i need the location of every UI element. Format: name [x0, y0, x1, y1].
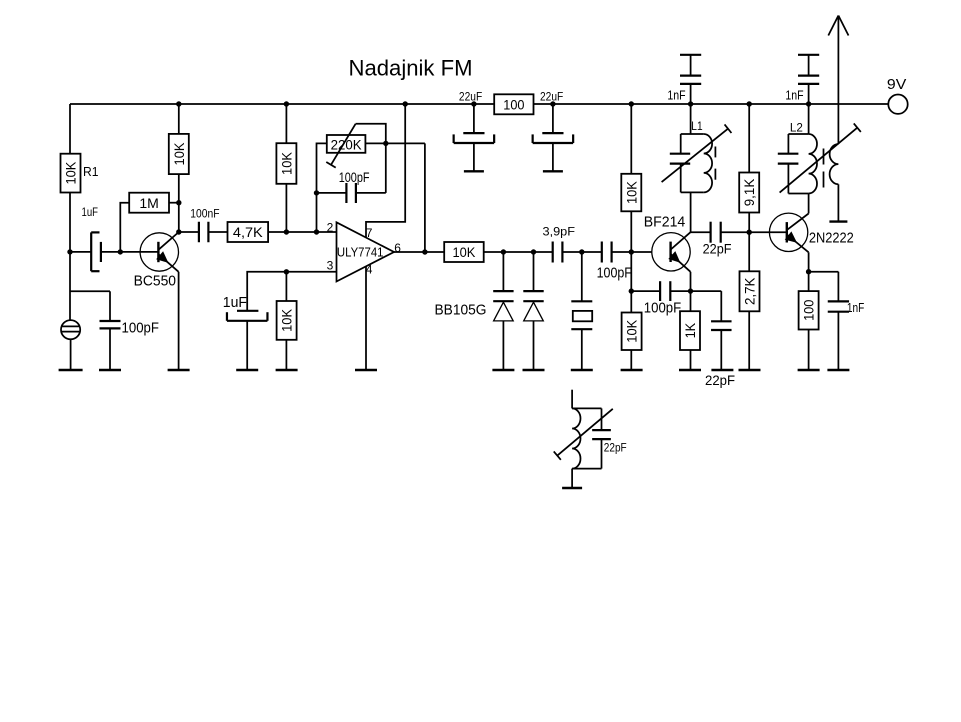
ground R13 [679, 369, 701, 371]
label C9 3,9pF [543, 225, 576, 239]
svg-text:1K: 1K [682, 322, 698, 338]
resistor R11 10K [277, 301, 297, 340]
node rail junction C [403, 101, 408, 106]
resistor R8 10K output [444, 242, 484, 262]
svg-text:22uF: 22uF [540, 89, 563, 103]
wire secondary to ground [837, 184, 839, 221]
wire 1M left lead [120, 203, 129, 252]
ground op-amp pin4 [355, 369, 377, 371]
resistor R10 9,1K [739, 173, 759, 213]
node rail junction D [471, 101, 476, 106]
wire mic branch horizontal [70, 290, 110, 292]
node pin3 junction dot [284, 269, 289, 274]
wire trimmer wiper [356, 124, 386, 144]
microphone MK1 [61, 320, 80, 339]
wire mic to ground [70, 339, 72, 370]
ground D1 [492, 369, 514, 371]
resistor R12 10K [622, 291, 642, 370]
svg-text:10K: 10K [624, 319, 640, 342]
crystal X1 [571, 252, 592, 370]
svg-text:R1: R1 [83, 164, 99, 179]
node rail junction H [747, 101, 752, 106]
svg-text:100: 100 [801, 300, 817, 321]
label C10 100pF [597, 265, 632, 282]
svg-text:22pF: 22pF [703, 241, 732, 257]
label Q1 BC550 [134, 272, 176, 289]
label C11 100pF [644, 300, 681, 317]
diode D1 BB105G varicap [493, 252, 513, 370]
wire R10 to base line [748, 213, 750, 233]
pin 6 label [394, 241, 401, 255]
node rail junction I [806, 101, 811, 106]
ground X1 [571, 369, 593, 371]
label C14 1nF [667, 87, 685, 102]
node collector junction dot [176, 229, 181, 234]
capacitor C12 22pF coupling [711, 222, 721, 243]
svg-text:100nF: 100nF [190, 206, 219, 220]
capacitor C15 1nF rail [798, 55, 819, 104]
label C6 1uF [223, 294, 247, 311]
wire branch down to C3 [109, 291, 111, 321]
wire 1M right lead [169, 202, 179, 204]
label C4 100nF [190, 206, 219, 220]
svg-text:9V: 9V [887, 76, 906, 93]
node output junction dot [422, 249, 427, 254]
label C15 1nF [785, 87, 803, 102]
title text [349, 56, 473, 81]
ground Q1 emitter [168, 369, 190, 371]
label 22uF second [540, 89, 563, 103]
node emitter junction dot [806, 269, 811, 274]
wire rail to L1 [690, 104, 692, 134]
pin 7 label [366, 226, 373, 240]
wire pin3 corner to 1uF [247, 272, 286, 311]
svg-text:100: 100 [503, 97, 524, 113]
capacitor C9 3,9pF [553, 242, 563, 263]
inductor L3 variable [554, 390, 613, 488]
wire C12 to 2N2222 base [721, 231, 787, 233]
wire R2 to collector node [178, 174, 180, 232]
svg-text:100pF: 100pF [339, 169, 370, 185]
capacitor C10 100pF series [602, 242, 612, 263]
svg-text:BF214: BF214 [644, 213, 686, 230]
svg-text:1nF: 1nF [847, 300, 864, 315]
wire 220K right leg [365, 142, 425, 144]
wire input node down to mic [69, 252, 71, 320]
resistor R14 2,7K [740, 271, 760, 311]
wire C3 to ground [109, 328, 111, 370]
svg-text:10K: 10K [171, 142, 187, 165]
node rail junction E [550, 101, 555, 106]
resistor R3 10K [276, 143, 296, 184]
wire pin4 to ground [365, 266, 367, 370]
svg-text:2N2222: 2N2222 [809, 229, 854, 246]
label Q3 2N2222 [809, 229, 854, 246]
ground R11 [276, 369, 298, 371]
svg-text:1uF: 1uF [82, 205, 99, 219]
resistor R13 1K [680, 291, 700, 370]
terminal 9V [888, 95, 907, 114]
node input junction dot [67, 249, 72, 254]
label L1 [691, 119, 703, 133]
node 9,1K junction dot [747, 230, 752, 235]
ground C3 [99, 369, 121, 371]
node varicap2 dot [531, 249, 536, 254]
capacitor C5 100pF feedback [317, 183, 386, 203]
label C3 100pF [122, 320, 160, 337]
node varicap1 dot [501, 249, 506, 254]
svg-text:10K: 10K [63, 161, 79, 184]
wire pin3 input [286, 271, 336, 273]
wire 220K left leg [317, 143, 327, 232]
svg-text:100pF: 100pF [644, 300, 681, 317]
node rail junction A [176, 101, 181, 106]
label C12 22pF [703, 241, 732, 257]
wire op-amp output [394, 251, 444, 253]
node rail junction F [629, 101, 634, 106]
wire main line seg1 [484, 251, 553, 253]
resistor R7 100 rail [494, 94, 533, 114]
node BF214 emitter dot [688, 288, 693, 293]
wire R9 to main line [630, 211, 632, 252]
resistor R4 1M [129, 193, 169, 213]
svg-text:L1: L1 [691, 119, 703, 133]
wire top supply rail right segment [534, 103, 889, 105]
label Q2 BF214 [644, 213, 686, 230]
capacitor C4 100nF [179, 222, 228, 243]
trimmer arrow R6 [326, 124, 355, 168]
svg-text:22pF: 22pF [705, 372, 735, 388]
node feedback junction dot [314, 229, 319, 234]
svg-text:BB105G: BB105G [435, 302, 487, 319]
node base junction dot [118, 249, 123, 254]
transistor Q2 BF214 [652, 232, 691, 291]
ground L2 secondary [829, 220, 847, 222]
svg-text:3,9pF: 3,9pF [543, 225, 576, 239]
svg-text:10K: 10K [279, 308, 295, 331]
wire L1 bottom to collector node [690, 192, 692, 232]
ground mic [59, 369, 83, 371]
wire 4,7K to opamp [268, 231, 336, 233]
node BF214 fb left dot [629, 288, 634, 293]
wire rail to R2 [178, 104, 180, 134]
capacitor C6 1uF non-inv [227, 311, 268, 321]
wire base line to R14 [748, 232, 750, 271]
wire R1 to input node [69, 193, 71, 252]
inductor L2 secondary [830, 144, 839, 184]
wire main line seg3 [612, 251, 652, 253]
wire top supply rail left segment [70, 103, 494, 105]
svg-text:L2: L2 [790, 121, 803, 135]
wire emitter to C13 [691, 290, 722, 292]
antenna [828, 16, 848, 145]
svg-text:4,7K: 4,7K [233, 224, 263, 240]
capacitor C1 1uF input coupling [70, 232, 120, 271]
node R3 junction dot [284, 229, 289, 234]
resistor R9 10K [621, 174, 641, 212]
wire rail to R9 [630, 104, 632, 174]
svg-text:22uF: 22uF [459, 89, 482, 103]
wire emitter to C16 [809, 271, 839, 273]
label L2 [790, 121, 803, 135]
resistor R1 10K [61, 154, 81, 193]
svg-text:10K: 10K [278, 151, 294, 174]
transistor Q1 BC550 [140, 232, 179, 370]
inductor L2 transformer primary [778, 123, 861, 193]
ground R15 [798, 369, 820, 371]
wire feedback to output [424, 143, 426, 252]
label 9V [887, 76, 906, 93]
wire collector node to C12 [691, 231, 711, 233]
wire base wire [120, 251, 157, 253]
ground C6 [236, 369, 258, 371]
resistor R2 10K [169, 134, 189, 174]
svg-text:ULY7741: ULY7741 [337, 244, 384, 259]
svg-text:6: 6 [394, 241, 401, 255]
label R1 [83, 164, 99, 179]
wire left rail drop to R1 [69, 104, 71, 154]
node 1M junction dot [176, 200, 181, 205]
capacitor C11 100pF BF214 feedback [631, 281, 690, 301]
label C16 1nF [847, 300, 864, 315]
label BB105G [435, 302, 487, 319]
ground R14 [739, 369, 761, 371]
wire R14 to ground [748, 311, 750, 370]
svg-text:2,7K: 2,7K [742, 277, 758, 305]
wire main line seg2 [562, 251, 601, 253]
ground L3 [562, 487, 582, 489]
svg-text:10K: 10K [623, 181, 639, 204]
ground C7 [464, 170, 484, 172]
svg-text:BC550: BC550 [134, 272, 176, 289]
wire R3 to input line [285, 184, 287, 232]
ground R12 [621, 369, 643, 371]
label 22uF first [459, 89, 482, 103]
wire rail to R10 [748, 104, 750, 173]
svg-text:10K: 10K [453, 244, 476, 260]
capacitor C16 1nF emitter [828, 272, 849, 370]
svg-text:9,1K: 9,1K [741, 178, 757, 206]
wire C6 to ground [246, 321, 248, 370]
ground C8 [543, 170, 563, 172]
capacitor C8 22uF [533, 104, 574, 171]
wire pin3 to R11 [285, 272, 287, 301]
svg-text:2: 2 [327, 220, 334, 234]
op-amp U1 ULY7741 [337, 222, 395, 281]
capacitor C7 22uF [454, 104, 495, 171]
node 220K junction dot [383, 141, 388, 146]
wire rail to L2 [808, 104, 810, 134]
svg-text:1nF: 1nF [785, 87, 803, 102]
svg-text:100pF: 100pF [122, 320, 160, 337]
pin 4 label [366, 263, 373, 277]
label C13 22pF [705, 372, 735, 388]
ground C13 [711, 369, 733, 371]
label C17 22pF [604, 440, 627, 454]
wire BF214 base node down [630, 252, 632, 291]
node crystal dot [579, 249, 584, 254]
ground C16 [827, 369, 849, 371]
pin 2 label [327, 220, 334, 234]
diode D2 BB105G varicap [523, 252, 543, 370]
inductor L1 tuned tank [662, 124, 732, 192]
capacitor C14 1nF rail [680, 55, 701, 104]
capacitor C13 22pF emitter [711, 291, 732, 370]
svg-text:1M: 1M [139, 195, 159, 211]
node fb cap junction dot [314, 190, 319, 195]
wire rail to R3 [285, 104, 287, 143]
ground D2 [523, 369, 545, 371]
resistor R15 100 [799, 272, 819, 370]
wire fb cap right leg [385, 143, 387, 193]
svg-text:Nadajnik FM: Nadajnik FM [349, 56, 473, 81]
capacitor C17 22pF L3 [592, 408, 611, 468]
resistor R6 220K trimmer [327, 135, 366, 153]
wire R11 to ground [285, 340, 287, 370]
svg-text:3: 3 [327, 259, 334, 273]
label C5 100pF [339, 169, 370, 185]
transistor Q3 2N2222 [769, 194, 808, 272]
wire pin7 to rail [366, 104, 405, 238]
svg-text:1nF: 1nF [667, 87, 685, 102]
capacitor C3 100pF mic bypass [100, 321, 121, 328]
svg-text:1uF: 1uF [223, 294, 247, 311]
svg-text:22pF: 22pF [604, 440, 627, 454]
label C1 1uF [82, 205, 99, 219]
pin 3 label [327, 259, 334, 273]
svg-text:100pF: 100pF [597, 265, 632, 282]
node rail junction G [688, 101, 693, 106]
node rail junction B [284, 101, 289, 106]
node BF214 base dot [629, 249, 634, 254]
resistor R5 4,7K [228, 222, 269, 242]
